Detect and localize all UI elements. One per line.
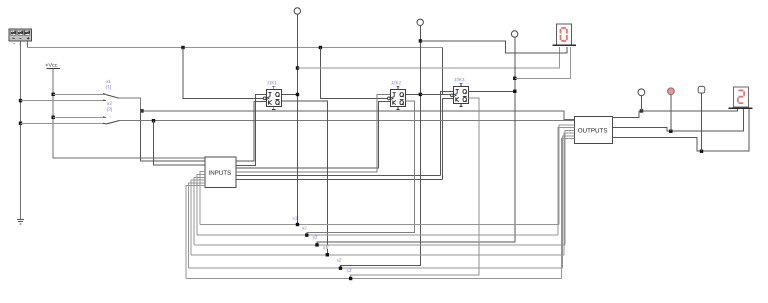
wire FF3 J pin riser bbox=[440, 91, 453, 175]
wire probe2 stem bbox=[670, 95, 672, 132]
node Vcc to x1 bbox=[52, 93, 55, 96]
wire Q1 to display0 pin2 bbox=[298, 47, 560, 68]
wire INPUTS in4 riser bbox=[200, 172, 205, 225]
bus wire s2b bbox=[188, 267, 562, 269]
wire INPUTS in5 riser bbox=[197, 175, 205, 236]
wire OUTPUTS in3 riser bbox=[559, 125, 574, 225]
display U1 seven-segment 0 bbox=[553, 24, 576, 46]
wire INPUTS out1 to FF1 K bbox=[236, 102, 266, 162]
wire FF3 Q to display node bbox=[469, 90, 515, 92]
wire OUTPUTS out1 bbox=[613, 111, 639, 118]
switch x2 bbox=[103, 102, 120, 124]
wire INPUTS out2 to FF1 J bbox=[236, 95, 266, 166]
wire Q2 vertical bbox=[341, 26, 421, 269]
probe2 red bbox=[668, 88, 675, 95]
wire INPUTS in9 riser bbox=[186, 186, 205, 279]
wire FF3 K pin riser bbox=[442, 98, 453, 179]
node s1 bbox=[296, 223, 299, 226]
wire OUTPUTS out2 bbox=[613, 109, 744, 131]
wire OUTPUTS in5 riser bbox=[565, 130, 574, 244]
node Q1 ff bbox=[296, 93, 299, 96]
wire block pin3 down bbox=[26, 42, 28, 48]
flip-flop J1K1 bbox=[263, 81, 281, 109]
label s3b bbox=[347, 269, 352, 272]
flip-flop J3K3 bbox=[451, 78, 469, 106]
wire INPUTS in8 riser bbox=[188, 183, 205, 268]
wire probe3 stem bbox=[701, 93, 703, 151]
node Q2 ff bbox=[419, 93, 422, 96]
terminal Q2 probe bbox=[417, 19, 423, 25]
node Q3 ff bbox=[513, 90, 516, 93]
bus wire s2 bbox=[197, 234, 558, 236]
wire FF1 Qbar down bbox=[281, 101, 327, 255]
node top bus to FF1 clk bbox=[181, 46, 184, 49]
wire x1 pole bbox=[119, 98, 141, 111]
label s1 bbox=[293, 216, 298, 219]
terminal probe3 bbox=[698, 86, 705, 93]
wire Q1 vertical bbox=[297, 14, 299, 224]
node x2 out bbox=[152, 119, 155, 122]
wire x1 throw1 bbox=[53, 93, 105, 95]
flip-flop J2K2 bbox=[388, 81, 406, 109]
display U2 seven-segment 2 bbox=[729, 87, 753, 109]
node Vcc to x2 bbox=[52, 116, 55, 119]
ground bbox=[17, 220, 24, 224]
wire Q3 vertical bbox=[317, 37, 515, 245]
node s1b bbox=[326, 253, 329, 256]
wire x2 throw1 bbox=[53, 116, 104, 118]
wire FF1 Q to node bbox=[281, 94, 297, 96]
wire x2 pole to OUTPUTS bbox=[120, 120, 575, 122]
node gnd to x2 bbox=[19, 122, 22, 125]
node x1 out bbox=[140, 109, 143, 112]
wire block pin2 to ground bbox=[20, 42, 22, 220]
wire x1 to OUTPUTS bbox=[141, 111, 575, 120]
wire INPUTS in7 riser bbox=[191, 180, 205, 255]
node probe2 bbox=[669, 130, 672, 133]
switch x1 bbox=[103, 80, 119, 101]
node probe1 bbox=[640, 109, 643, 112]
label s1b bbox=[323, 246, 328, 249]
wire OUTPUTS out3 bbox=[613, 109, 749, 151]
wire INPUTS out5 to FF3 J bbox=[236, 175, 440, 177]
bus wire s1 bbox=[200, 224, 559, 226]
wire FF2 Q to node bbox=[406, 93, 421, 95]
node gnd to x1 bbox=[19, 99, 22, 102]
wire INPUTS in6 riser bbox=[194, 177, 205, 245]
wire FF2 clk riser bbox=[320, 48, 387, 99]
wire top bus down to FF3 clk bbox=[441, 48, 443, 95]
wire INPUTS out3 to FF2 K bbox=[236, 102, 390, 169]
terminal block J1 bbox=[9, 29, 32, 45]
wire OUTPUTS in4 riser bbox=[558, 128, 575, 235]
op INPUTS box bbox=[205, 157, 236, 187]
wire x2 to INPUTS bbox=[154, 121, 206, 165]
bus wire s3b bbox=[186, 278, 562, 280]
op OUTPUTS box bbox=[574, 117, 612, 144]
node s3 bbox=[315, 243, 318, 246]
wire FF1 clk riser bbox=[183, 48, 263, 99]
power +Vcc bbox=[46, 63, 60, 68]
wire OUTPUTS in6 riser bbox=[564, 133, 574, 255]
wire Q3 to display0 pin3 bbox=[515, 47, 571, 79]
wire OUTPUTS in7 riser bbox=[563, 136, 575, 268]
wire x1 to INPUTS bbox=[141, 111, 206, 161]
wire top bus bbox=[27, 47, 442, 49]
terminal Q3 probe bbox=[511, 31, 517, 37]
node probe3 bbox=[700, 150, 703, 153]
wire INPUTS out6 to FF3 K bbox=[236, 178, 442, 180]
node s3b bbox=[349, 277, 352, 280]
label s2b bbox=[337, 258, 342, 261]
bus wire s3 bbox=[194, 244, 565, 246]
node s2 bbox=[305, 233, 308, 236]
wire probe1 stem bbox=[641, 96, 643, 111]
wire out1 to display2 bar bbox=[639, 109, 738, 111]
wire Q2 to display0 pin1 bbox=[420, 41, 567, 53]
wire OUTPUTS in8 riser bbox=[561, 139, 574, 279]
node top bus to FF2 clk bbox=[319, 46, 322, 49]
label s3 bbox=[313, 235, 318, 238]
label s1b highlight bbox=[326, 245, 328, 248]
wire Vcc stem bbox=[53, 68, 205, 158]
node s2b bbox=[339, 267, 342, 270]
label s2 bbox=[302, 226, 306, 229]
node Q2 display bbox=[419, 39, 422, 42]
wire FF2 Q to FF3 clk bbox=[420, 93, 451, 95]
terminal probe1 bbox=[638, 89, 645, 96]
wire FF2 Qbar down bbox=[307, 101, 415, 235]
wire INPUTS out4 to FF2 J bbox=[236, 94, 390, 171]
bus wire s1b bbox=[191, 254, 564, 256]
terminal Q1 probe bbox=[294, 8, 300, 14]
wire FF3 Qbar down bbox=[351, 98, 479, 279]
wire x2 throw2 bbox=[21, 123, 106, 125]
node Q3 display pin3 bbox=[513, 77, 516, 80]
node Q1 display bbox=[296, 66, 299, 69]
wire x1 throw2 bbox=[21, 100, 106, 102]
